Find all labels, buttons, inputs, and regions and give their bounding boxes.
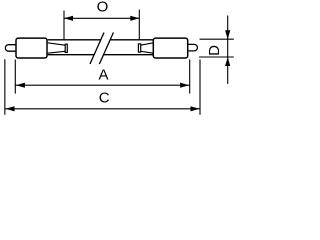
dimension D top arrowhead bbox=[225, 30, 230, 39]
dimension O extension line right bbox=[138, 10, 140, 40]
lamp right contact nub bbox=[188, 44, 197, 51]
dimension A line bbox=[15, 84, 189, 86]
dimension C extension line left bbox=[4, 59, 6, 115]
left pinch seal bottom edge bbox=[48, 51, 65, 53]
tube top wall right segment bbox=[110, 39, 153, 41]
dimension D bottom arrowhead bbox=[225, 57, 230, 66]
dimension O extension line left bbox=[63, 11, 65, 40]
dimension D line bbox=[227, 16, 229, 84]
dimension O left arrowhead bbox=[64, 16, 73, 21]
left pinch seal top edge bbox=[48, 43, 65, 45]
lamp left contact nub bbox=[5, 45, 15, 52]
dimension A right arrowhead bbox=[180, 83, 189, 88]
dimension O right arrowhead bbox=[130, 16, 139, 21]
right pinch end bar bbox=[138, 44, 140, 52]
dimension A extension line right bbox=[189, 59, 191, 93]
dimension C right arrowhead bbox=[191, 106, 200, 111]
tube bottom wall right segment bbox=[104, 54, 154, 56]
lamp right end cap bbox=[153, 38, 187, 58]
svg-text:D: D bbox=[206, 45, 223, 56]
dimension C extension line right bbox=[199, 59, 201, 114]
right pinch seal bottom edge bbox=[141, 51, 154, 53]
svg-text:O: O bbox=[97, 0, 109, 16]
svg-text:C: C bbox=[99, 89, 110, 106]
dimension A extension line left bbox=[14, 60, 16, 94]
dimension D extension line top bbox=[200, 38, 234, 40]
left pinch end bar bbox=[65, 44, 67, 52]
dimension O line bbox=[64, 17, 139, 19]
tube top wall left segment bbox=[48, 39, 101, 41]
right pinch seal top edge bbox=[141, 43, 154, 45]
tube bottom wall left segment bbox=[48, 54, 94, 56]
break mark diagonal 2 bbox=[99, 33, 113, 65]
lamp left end cap bbox=[16, 38, 47, 58]
dimension C left arrowhead bbox=[6, 106, 15, 111]
break mark diagonal 1 bbox=[90, 33, 104, 65]
dimension D extension line bottom bbox=[199, 56, 234, 58]
svg-text:A: A bbox=[98, 66, 108, 83]
dimension A left arrowhead bbox=[16, 83, 25, 88]
dimension C line bbox=[5, 108, 200, 110]
